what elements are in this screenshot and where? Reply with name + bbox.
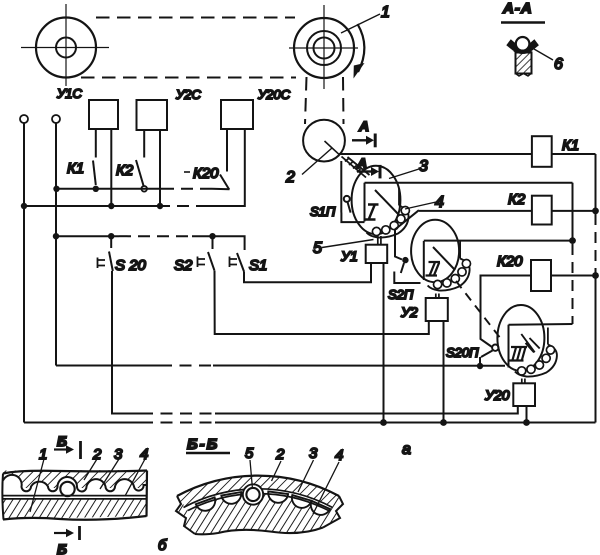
- outer arc: [177, 476, 339, 496]
- svg-text:2: 2: [92, 446, 102, 463]
- actuator box У1: [340, 245, 387, 264]
- belt section longitudinal (view b): [2, 470, 147, 520]
- drum II shaft to У2: [436, 294, 439, 299]
- drum II body: [411, 220, 459, 282]
- terminal left 1: [20, 115, 28, 123]
- contact К1: [67, 129, 99, 192]
- wire: У2С right leg to bus2: [159, 130, 161, 206]
- svg-text:5: 5: [245, 445, 254, 462]
- wire: У20 right leg to bottom bus: [526, 406, 528, 423]
- svg-text:К1: К1: [67, 160, 84, 177]
- svg-text:S1: S1: [249, 257, 267, 274]
- bus1 y=188.8: [53, 186, 229, 192]
- svg-text:б: б: [158, 537, 167, 554]
- thin plate item 4: [3, 496, 147, 499]
- dashed ellipsis diagonal II-III: [456, 281, 501, 339]
- ball band of drum I, item 4: [367, 188, 410, 238]
- actuator box У2: [400, 298, 448, 321]
- svg-text:1: 1: [39, 446, 47, 463]
- svg-text:К2: К2: [116, 162, 134, 179]
- leaders 5 2 3 4 on Б-Б: [250, 460, 339, 514]
- label 1 leader: [341, 4, 390, 33]
- terminal left 2: [52, 115, 60, 123]
- bus2 junction dots: [21, 203, 163, 209]
- wire: left terminal 1 down to bottom bus: [23, 123, 25, 423]
- guide from drum I band to S2П and К2 wire: [395, 210, 419, 259]
- svg-text:1: 1: [381, 4, 390, 21]
- svg-text:У1: У1: [340, 248, 358, 264]
- label 2 leader: [285, 148, 332, 186]
- svg-text:А-А: А-А: [502, 0, 533, 17]
- flap switch S2П: [388, 257, 421, 302]
- section mark Б upper: [54, 433, 81, 459]
- actuator box У20: [484, 383, 535, 406]
- svg-text:4: 4: [335, 447, 343, 464]
- svg-text:У20С: У20С: [257, 87, 291, 102]
- svg-text:А: А: [358, 118, 369, 134]
- idler circle 2: [303, 120, 345, 162]
- svg-text:У2С: У2С: [175, 87, 202, 102]
- wire: К1 left lead: [339, 153, 532, 155]
- svg-text:S2: S2: [174, 257, 193, 274]
- contact К20: [184, 129, 229, 190]
- rotation arrow: [354, 24, 365, 79]
- svg-text:У2: У2: [400, 304, 418, 320]
- svg-text:S20П: S20П: [446, 345, 479, 360]
- wire: У1 right leg to bottom bus: [383, 263, 385, 423]
- wire: К1 right lead to right bus: [552, 153, 596, 155]
- scallop profile line: [3, 475, 147, 492]
- left end cut: [176, 496, 195, 534]
- leaders 1 2 3 4 on section: [30, 459, 145, 512]
- wire: S1 down then right to У1: [244, 263, 371, 282]
- right edge: [145, 471, 148, 517]
- numeral III: [508, 347, 528, 361]
- bottom bus: [24, 419, 596, 426]
- svg-text:3: 3: [309, 445, 318, 462]
- drum III body: [497, 305, 544, 371]
- svg-text:а: а: [402, 441, 411, 458]
- section Б-Б title: [186, 436, 230, 453]
- drum I body: [352, 166, 401, 234]
- section Б-Б curved belt: [170, 470, 346, 540]
- section mark Б lower: [54, 526, 80, 555]
- svg-text:6: 6: [554, 56, 563, 73]
- flap switch S20П: [446, 345, 498, 370]
- ball band of drum III: [515, 328, 557, 377]
- label 4 leader: [405, 194, 444, 211]
- right end cut: [323, 496, 343, 528]
- svg-text:К20: К20: [193, 165, 219, 182]
- wire: К2 right lead to right bus: [552, 210, 596, 212]
- svg-text:У1С: У1С: [56, 86, 83, 101]
- pulley right, item 1: [289, 5, 358, 89]
- relay К1: [532, 136, 579, 167]
- svg-text:4: 4: [140, 446, 148, 463]
- svg-text:4: 4: [435, 194, 444, 211]
- chute from idler 2 into drum I: [342, 157, 370, 178]
- svg-text:Б-Б: Б-Б: [187, 436, 219, 453]
- left edge: [2, 474, 3, 520]
- inner ragged edge: [195, 528, 323, 535]
- contact К2: [116, 130, 147, 192]
- drum I shaft to У1: [378, 236, 381, 245]
- plate arcs: [184, 489, 333, 508]
- sensor box У2С: [137, 87, 202, 130]
- ball band of drum II: [428, 241, 471, 291]
- drum window link x=572.5: [365, 183, 576, 325]
- section mark A lower: [356, 155, 380, 178]
- belt (dashed): [81, 18, 344, 125]
- drum III shaft to У20: [522, 379, 525, 384]
- flap switch S1П: [310, 196, 365, 222]
- chute rod left of drum I: [340, 161, 342, 213]
- svg-text:К20: К20: [497, 253, 523, 270]
- wire: У20С right leg corner to bus2: [208, 129, 245, 206]
- wire: У1С right leg to bus2: [110, 129, 112, 206]
- label 5 leader: [313, 240, 374, 258]
- wire: К20 coil left lead down to S20П: [481, 276, 532, 348]
- sensor box У1С: [56, 86, 118, 129]
- numeral I: [365, 205, 379, 220]
- relay К2: [508, 191, 552, 225]
- label 3 leader: [389, 158, 428, 179]
- svg-text:2: 2: [285, 169, 295, 186]
- limit switch S2: [174, 236, 215, 274]
- pulley left (drive drum): [21, 4, 109, 86]
- wire: left terminal 2 down to bus y365: [55, 123, 57, 366]
- wire: S20 down to bus y413: [112, 271, 141, 414]
- svg-text:3: 3: [419, 158, 428, 175]
- embedded ball: [60, 482, 74, 496]
- section A-A title: [501, 0, 545, 23]
- wire: У2 right leg to bottom bus: [443, 321, 445, 423]
- svg-text:S 20: S 20: [115, 257, 147, 274]
- svg-text:S1П: S1П: [310, 204, 336, 219]
- wire: К2 left lead: [419, 210, 532, 212]
- label 6 leader: [534, 49, 563, 73]
- sensor box У20С: [221, 87, 291, 129]
- section mark A upper: [352, 118, 375, 147]
- numeral II: [426, 262, 441, 276]
- svg-text:Б: Б: [57, 433, 67, 449]
- scallop socket cups: [196, 491, 330, 518]
- limit switch S1: [230, 253, 268, 274]
- svg-text:3: 3: [114, 446, 123, 463]
- wire: К20 right lead to right bus: [551, 275, 596, 277]
- svg-text:У20: У20: [484, 387, 510, 403]
- right bus: [592, 154, 599, 423]
- bottom edge: [3, 516, 147, 520]
- bus y365: [56, 365, 505, 367]
- svg-text:2: 2: [275, 446, 285, 463]
- bus3 y=236.2: [53, 233, 245, 250]
- svg-text:К2: К2: [508, 191, 526, 208]
- svg-text:S2П: S2П: [388, 287, 414, 302]
- svg-text:5: 5: [313, 240, 322, 257]
- svg-text:Б: Б: [57, 541, 67, 555]
- detail 6 (ball in clamp, section A-A): [506, 37, 539, 76]
- limit switch S20: [98, 236, 147, 274]
- ball item 5: [243, 484, 263, 504]
- top edge: [3, 471, 147, 474]
- wire: S2 down then right to У2: [215, 271, 429, 334]
- relay К20: [497, 253, 551, 291]
- svg-text:К1: К1: [562, 137, 579, 154]
